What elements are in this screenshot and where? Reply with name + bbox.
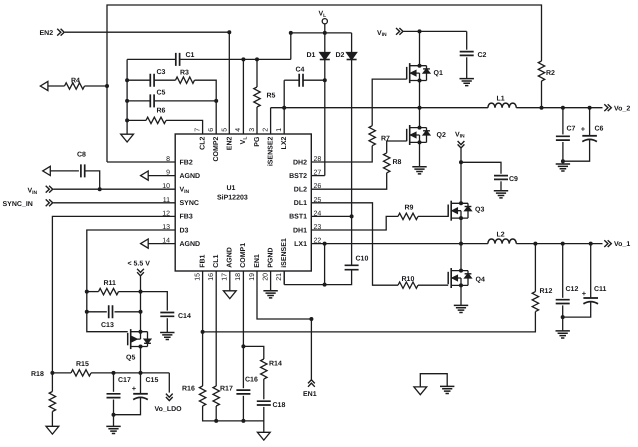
pin name DL2 (pin 26) [294,187,307,194]
pin name COMP1 (pin 18) [240,243,247,268]
svg-text:AGND: AGND [227,247,234,268]
pin name PG (pin 3) [254,136,261,147]
wire R14 to C18 [263,379,265,399]
pin number 24 [314,210,322,217]
svg-text:2: 2 [262,128,269,132]
pin name BST1 (pin 24) [289,214,307,221]
wire C4 left to LX2 node [283,80,285,108]
C15 label [146,377,159,384]
wire iSENSE2 (pin 2) to LX2 node [270,108,272,134]
pin number 21 [276,273,283,281]
wire C16 bottom [242,396,244,421]
svg-text:EN1: EN1 [254,254,261,268]
R10 label [402,276,415,283]
svg-text:BST1: BST1 [289,214,307,221]
wire C7/C6 to ground [562,161,564,164]
C16 label [245,377,258,384]
pin number 9 [166,170,170,177]
svg-text:LX1: LX1 [294,241,307,248]
svg-text:Q3: Q3 [475,207,484,214]
pin number 10 [162,183,170,190]
svg-text:BST2: BST2 [289,173,307,180]
pin name D3 (pin 13) [180,227,189,234]
svg-text:6: 6 [208,128,215,132]
pin number 26 [314,183,322,190]
capacitor C16 [236,390,250,394]
R9 label [405,205,414,212]
ground (arrow) below C18 [257,432,270,440]
C8 label [77,152,86,159]
capacitor C10 [345,265,359,269]
ground (stripe) below pin 20 [263,291,277,298]
wire iSENSE1 (pin 21) stub [283,271,285,285]
capacitor C11 (polarized) [563,244,598,318]
wire COMP1 to R14 [243,346,263,359]
svg-text:R18: R18 [31,371,44,378]
svg-text:iSENSE1: iSENSE1 [280,238,288,268]
transistor Q5 [128,329,151,349]
svg-text:C15: C15 [146,377,159,384]
pin name CL1 (pin 16) [213,254,220,267]
wire 5.5V terminal to Q5 drain [140,276,142,332]
wire D2 cathode to BST1 (pin 24) [311,60,353,219]
wire Q1 drain [419,31,421,65]
ground arrow at R4 (left-pointing open triangle) [40,81,48,90]
Vo_1 label [614,241,630,248]
transistor Q3 [448,201,471,221]
C5 label [157,90,166,97]
C11 label [594,286,607,293]
wire Vo_LDO branch [168,373,170,393]
pin number 12 [162,210,170,217]
wire R2 bottom to Vo_2 line [540,81,544,110]
Vo_LDO label [155,406,183,413]
svg-text:R11: R11 [104,280,117,287]
D1 label [307,52,316,59]
svg-text:R3: R3 [180,70,189,77]
svg-text:Q4: Q4 [476,277,485,284]
pin name FB2 (pin 8) [180,159,193,166]
pin name DH2 (pin 28) [293,159,307,166]
wire ground tie [420,374,447,387]
pin number 28 [314,156,322,163]
capacitor C14 [141,292,175,333]
svg-text:DL2: DL2 [294,187,307,194]
pin number 6 [208,128,215,132]
pin number 15 [194,273,201,281]
svg-text:SYNC_IN: SYNC_IN [3,201,33,208]
pin number 20 [262,273,269,281]
Q5 label [126,355,135,362]
capacitor C3 [127,74,175,87]
svg-text:R8: R8 [393,159,402,166]
C4 label [296,67,305,74]
resistor R15 [52,370,91,376]
svg-text:DH1: DH1 [293,227,307,234]
wire R7 to DH2 (pin 28) [311,146,372,162]
svg-text:C11: C11 [594,286,607,293]
resistor R6 [127,117,203,134]
svg-text:R14: R14 [269,361,282,368]
svg-text:C17: C17 [118,377,131,384]
wire pin 20 PGND stub [270,271,272,291]
svg-text:21: 21 [276,273,283,281]
pin number 1 [276,128,283,132]
svg-text:D2: D2 [336,52,345,59]
EN1 label [303,391,317,398]
wire FB2 feedback rail (top frame to pin 8) [105,5,542,162]
svg-text:C13: C13 [101,322,114,329]
svg-text:R9: R9 [405,205,414,212]
svg-text:PGND: PGND [267,248,274,268]
pin name AGND (pin 14) [180,241,201,248]
svg-text:R5: R5 [267,93,276,100]
wire Q4 source to ground [460,285,462,305]
svg-text:7: 7 [194,128,201,132]
svg-text:C16: C16 [245,377,258,384]
VIN terminal chevron (channel 2) [396,28,403,35]
R2 label [546,70,555,77]
wire VIN2 to Q3 drain [459,148,463,203]
svg-text:C8: C8 [77,152,86,159]
ground (arrow) of tie [414,387,427,395]
ground (stripe) below C14 [160,333,174,340]
wire R10 to Q4 gate [418,284,448,286]
svg-text:SYNC: SYNC [180,200,199,207]
R3 label [180,70,189,77]
R17 label [220,386,233,393]
resistor R2 [538,61,544,81]
EN1 terminal chevron [308,380,315,387]
VL terminal circle [322,19,327,24]
ground (stripe) below Q4 [454,305,468,312]
pin number 22 [314,238,322,245]
wire Q1 gate to R7 [372,79,407,126]
pin number 19 [249,273,256,281]
ground (stripe) below C17/C15 [106,426,120,433]
svg-text:C18: C18 [273,402,286,409]
pin name EN2 (pin 5) [227,137,234,151]
svg-text:5: 5 [222,128,229,132]
ground arrow at pin 9 AGND [141,171,176,180]
wire FB1 (pin 15) to R16 [202,271,204,386]
pin number 27 [314,170,322,177]
svg-text:C2: C2 [478,52,487,59]
svg-text:< 5.5 V: < 5.5 V [128,260,151,267]
wire C10 bottom to LX1/iSENSE1 [284,244,351,287]
Q2 label [437,132,446,139]
pin name DL1 (pin 25) [294,200,307,207]
pin name VIN (pin 10) [180,187,190,195]
svg-text:DL1: DL1 [294,200,307,207]
C1 label [186,52,195,59]
wire SYNC_IN to pin 11 [53,202,175,204]
pin name BST2 (pin 27) [289,173,307,180]
C6 label [595,126,604,133]
svg-text:LX2: LX2 [281,136,288,149]
svg-text:R12: R12 [540,288,553,295]
wire BST1 junction to C10 [351,216,353,264]
capacitor C12 [556,244,570,331]
svg-text:3: 3 [249,128,256,132]
diode D2 [347,33,357,60]
svg-text:AGND: AGND [180,173,201,180]
pin number 5 [222,128,229,132]
svg-text:D3: D3 [180,227,189,234]
wire Q2 source to ground [419,142,421,166]
VL label [319,11,327,19]
ground (stripe) below C9 [494,191,508,198]
ground (stripe) of tie [440,386,454,393]
capacitor C18 [257,401,271,405]
Vo_2 terminal chevron [604,104,611,111]
resistor R3 [176,77,195,83]
C7 label [567,126,576,133]
capacitor C2 [460,52,474,56]
R18 label [31,371,44,378]
R8 label [393,159,402,166]
svg-text:R2: R2 [546,70,555,77]
pin name DH1 (pin 23) [293,227,307,234]
C18 label [273,402,286,409]
resistor R9 [398,213,418,219]
pin number 17 [222,273,229,281]
D2 label [336,52,345,59]
svg-text:Vo_LDO: Vo_LDO [155,406,183,413]
pin name iSENSE2 (pin 2) [266,137,274,167]
pin number 16 [208,273,215,281]
resistor R18 [49,373,55,426]
svg-text:C1: C1 [186,52,195,59]
Vo_2 label [614,105,630,112]
wire LX2 (pin 1) stub [283,108,285,134]
svg-text:C7: C7 [567,126,576,133]
svg-text:C12: C12 [566,286,579,293]
capacitor C7 [556,108,570,164]
ground arrow at C8 (left-pointing open triangle) [43,166,51,175]
VIN label (channel 1) [455,131,465,139]
Q4 label [476,277,485,284]
svg-text:+: + [581,125,586,134]
EN2 label [40,30,54,37]
pin number 3 [249,128,256,132]
svg-text:19: 19 [249,273,256,281]
ground (stripe) below Q2 [412,167,426,174]
svg-text:FB1: FB1 [199,254,206,267]
R6 label [157,108,166,115]
pin name FB1 (pin 15) [199,254,206,267]
Vo_1 terminal chevron [604,240,611,247]
svg-text:Vo_2: Vo_2 [614,105,630,112]
VIN label (left) [28,188,38,196]
R11 label [104,280,117,287]
C11 plus sign [582,289,587,298]
capacitor C4 [284,74,325,87]
svg-text:4: 4 [235,128,242,132]
C12 label [566,286,579,293]
ground (arrow) below R18 [46,426,59,434]
C10 label [356,256,369,263]
svg-text:SiP12203: SiP12203 [217,194,248,202]
capacitor C1 [176,53,180,66]
U1 reference label [227,185,236,192]
svg-text:D1: D1 [307,52,316,59]
resistor R7 [369,126,375,146]
pin name SYNC (pin 11) [180,200,199,207]
pin name FB3 (pin 12) [180,214,193,221]
svg-text:Q5: Q5 [126,355,135,362]
pin name EN1 (pin 19) [254,254,261,268]
R14 label [269,361,282,368]
wire DH1 (pin 23) to R9 [311,216,398,230]
resistor R5 [254,59,260,134]
pin name CL2 (pin 7) [199,137,206,150]
resistor R10 [398,282,418,288]
svg-text:CL1: CL1 [213,254,220,267]
EN2 terminal chevron [57,29,64,36]
C6 plus sign [581,125,586,134]
pin number 4 [235,128,242,132]
svg-text:R15: R15 [76,361,89,368]
svg-text:C14: C14 [178,313,191,320]
C9 label [509,176,518,183]
resistor R11 [87,288,143,294]
capacitor C13 [87,305,143,318]
wire R12 bottom to FB1 line [201,312,536,334]
VIN label (channel 2) [377,30,387,38]
svg-text:EN1: EN1 [303,391,317,398]
pin name iSENSE1 (pin 21) [280,238,288,268]
wire R3 to COMP2 (pin 6) [195,80,219,134]
wire R17 bottom [215,406,217,421]
svg-text:EN2: EN2 [40,30,54,37]
wire VIN to Q1 drain and C2 [404,29,467,49]
resistor R17 [213,386,219,406]
svg-text:FB3: FB3 [180,214,193,221]
wire C17/C15 to ground [113,415,115,427]
resistor R16 [199,386,205,406]
C15 plus sign [132,384,137,393]
ground (stripe) below C12 [556,331,570,338]
SYNC_IN terminal chevron [46,199,53,206]
svg-text:R10: R10 [402,276,415,283]
wire R16 to ground rail [203,406,264,423]
C14 label [178,313,191,320]
svg-text:FB2: FB2 [180,159,193,166]
pin name AGND (pin 9) [180,173,201,180]
capacitor C5 [127,94,216,107]
svg-text:L2: L2 [497,232,505,239]
pin name LX1 (pin 22) [294,241,307,248]
Q3 label [475,207,484,214]
SYNC_IN label [3,201,33,208]
svg-text:CL2: CL2 [199,137,206,150]
svg-text:R17: R17 [220,386,233,393]
op-amp U1 SiP12203 controller IC body [175,134,311,271]
pin number 14 [162,238,170,245]
wire C2 to ground [466,57,468,78]
wire DL1 (pin 25) to R10 [311,203,398,285]
transistor Q1 [407,63,430,83]
transistor Q2 [407,125,430,145]
wire C9 to ground [500,181,502,191]
wire Q1 source to LX2 line [419,81,421,108]
svg-text:COMP1: COMP1 [240,243,247,268]
Vo_LDO terminal chevron [166,394,173,401]
svg-text:15: 15 [194,273,201,281]
C2 label [478,52,487,59]
U1 part number label [217,194,248,202]
pin name VL (pin 4) [240,137,248,145]
svg-text:Vo_1: Vo_1 [614,241,630,248]
svg-text:EN2: EN2 [227,137,234,151]
wire R4 left lead [48,85,65,87]
ground (stripe) below C7/C6 [556,164,570,171]
wire LX2 to Vo_2 output line [271,106,603,110]
svg-text:+: + [582,289,587,298]
wire C18 to ground [263,407,265,432]
transistor Q4 [448,268,471,288]
5.5V limit label [128,260,151,267]
wire D1 cathode to BST2 (pin 27) with C4 tap [311,60,327,176]
wire COMP2 ground rail [125,59,129,134]
wire Q3 source to LX1 line [460,218,462,244]
VIN terminal chevron (channel 1) [458,141,465,148]
VIN terminal chevron (left) [46,186,53,193]
capacitor C6 (polarized) [563,108,597,162]
svg-text:16: 16 [208,273,215,281]
pin number 8 [166,156,170,163]
wire Q5 source to Vo_LDO node [140,347,142,373]
R4 label [71,77,80,84]
R16 label [182,386,195,393]
svg-text:C10: C10 [356,256,369,263]
inductor L2 [488,239,516,244]
wire R8 to DL2 (pin 26) [311,173,386,189]
wire VL line (C1 row) [127,57,291,61]
wire Q2 drain [419,108,421,128]
wire EN1 (pin 19) to terminal [257,271,313,380]
svg-text:C9: C9 [509,176,518,183]
svg-text:C5: C5 [157,90,166,97]
C17 label [118,377,131,384]
resistor R8 [384,153,390,173]
wire D3 (pin 13) to LDO gate rail [85,230,175,332]
pin number 18 [235,273,242,281]
L2 label [497,232,505,239]
resistor R12 [532,244,538,312]
svg-text:18: 18 [235,273,242,281]
svg-text:20: 20 [262,273,269,281]
svg-text:R6: R6 [157,108,166,115]
wire VL line to pin 4 [242,59,244,134]
Q1 label [434,70,443,77]
diode D1 [320,33,330,60]
pin number 23 [314,224,322,231]
C13 label [101,322,114,329]
svg-text:C3: C3 [157,69,166,76]
R5 label [267,93,276,100]
svg-text:R16: R16 [182,386,195,393]
wire CL1 (pin 16) to R17 [215,271,217,386]
svg-text:1: 1 [276,128,283,132]
wire VIN2 to C9 [461,162,501,173]
pin number 7 [194,128,201,132]
pin number 13 [162,224,170,231]
capacitor C17 [107,373,121,417]
resistor R4 [65,83,85,89]
svg-text:AGND: AGND [180,241,201,248]
